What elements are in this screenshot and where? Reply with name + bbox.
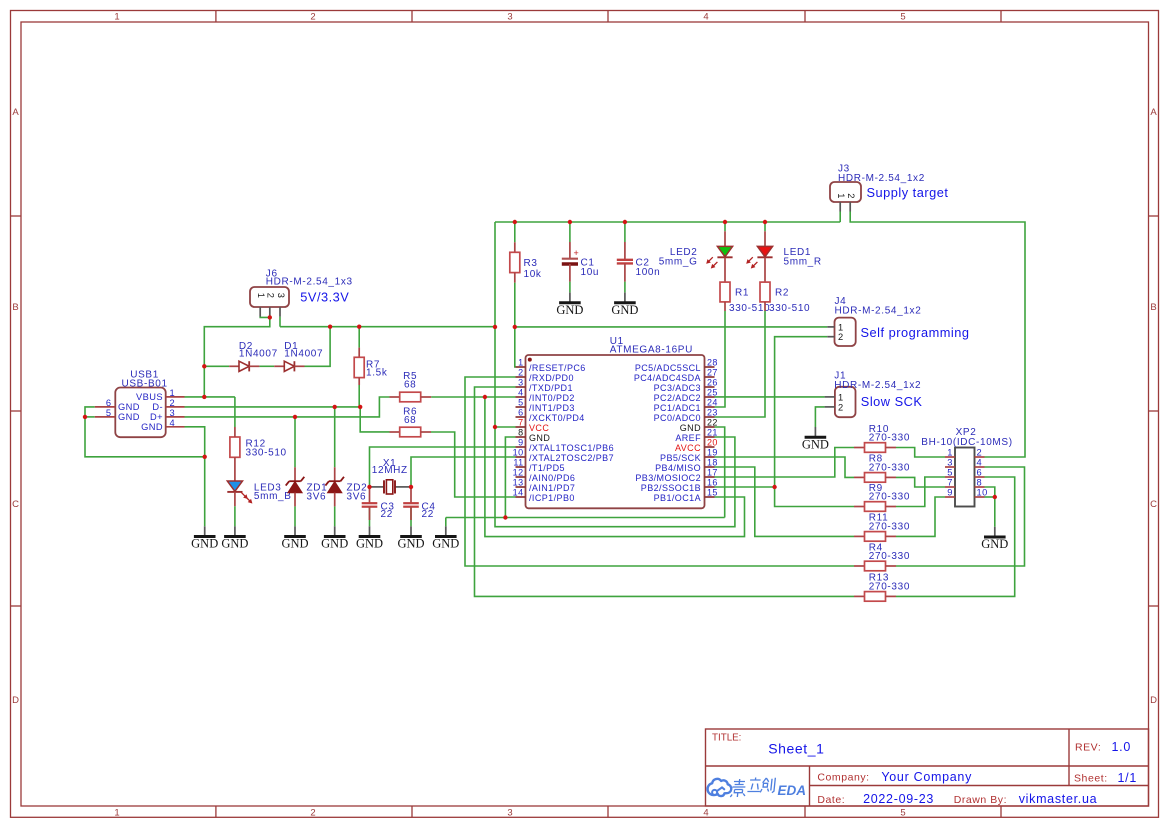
svg-text:6: 6	[977, 468, 983, 478]
svg-text:1: 1	[947, 448, 953, 458]
svg-text:2: 2	[838, 332, 844, 342]
svg-text:R3: R3	[524, 258, 538, 269]
node junction J6 pins 1-2	[268, 315, 272, 319]
wire J4 pin2 down to R9	[775, 337, 854, 507]
ground under ZD1	[281, 526, 308, 550]
svg-text:1: 1	[838, 392, 844, 402]
svg-text:3: 3	[170, 408, 176, 418]
node junction D1 to VCC rail	[328, 325, 332, 329]
svg-text:GND: GND	[191, 537, 218, 551]
wire VCC top rail	[495, 221, 840, 223]
svg-text:11: 11	[513, 458, 523, 468]
svg-text:PC0/ADC0: PC0/ADC0	[654, 413, 701, 423]
svg-text:22: 22	[381, 509, 393, 520]
ground under C4	[397, 526, 424, 550]
svg-text:10: 10	[977, 488, 988, 498]
svg-text:/XTAL2TOSC2/PB7: /XTAL2TOSC2/PB7	[529, 453, 614, 463]
svg-text:PC2/ADC2: PC2/ADC2	[654, 393, 701, 403]
resistor R8 270-330	[854, 454, 910, 483]
svg-text:2: 2	[310, 808, 315, 819]
svg-text:1: 1	[518, 358, 523, 368]
IC U1 ATMEGA8-16PU	[513, 336, 718, 508]
svg-text:Company:: Company:	[817, 772, 869, 784]
svg-text:R1: R1	[735, 287, 749, 298]
wire LED3 cathode to ground	[234, 506, 236, 526]
svg-text:7: 7	[947, 478, 953, 488]
wire VBUS up to J6 pins 1-2	[204, 317, 269, 397]
wire USB GND pin6 loop	[85, 407, 205, 457]
svg-text:AREF: AREF	[675, 433, 701, 443]
wire U1 pin9 XTAL1 to crystal	[370, 447, 516, 487]
svg-text:3: 3	[507, 808, 512, 819]
svg-text:PC1/ADC1: PC1/ADC1	[654, 403, 701, 413]
svg-text:270-330: 270-330	[869, 551, 910, 562]
svg-text:270-330: 270-330	[869, 492, 910, 503]
resistor R10 270-330	[854, 424, 910, 453]
title block	[706, 729, 1149, 806]
svg-text:1/1: 1/1	[1118, 771, 1137, 785]
wire GND bus to ground symbol	[445, 518, 447, 527]
wire U1 pin10 XTAL2 to crystal	[411, 457, 516, 487]
svg-text:/RESET/PC6: /RESET/PC6	[529, 363, 586, 373]
svg-text:TITLE:: TITLE:	[712, 733, 741, 744]
svg-text:GND: GND	[680, 423, 701, 433]
svg-text:8: 8	[518, 428, 523, 438]
svg-text:GND: GND	[118, 402, 140, 412]
svg-text:R2: R2	[775, 287, 789, 298]
svg-text:330-510: 330-510	[729, 303, 770, 314]
wire C4 to ground	[410, 507, 412, 527]
svg-text:Your Company: Your Company	[881, 770, 972, 784]
svg-text:GND: GND	[356, 537, 383, 551]
wire C1 to ground	[569, 282, 571, 293]
svg-text:1: 1	[838, 322, 844, 332]
ground under J1	[802, 427, 829, 451]
svg-text:B: B	[12, 302, 18, 313]
svg-text:D+: D+	[150, 412, 163, 422]
svg-text:A: A	[12, 107, 19, 118]
svg-text:4: 4	[518, 388, 523, 398]
wire R5 to U1 pin4 INT0	[431, 396, 515, 398]
wire R2 to U1 pin23	[715, 311, 766, 417]
svg-text:HDR-M-2.54_1x2: HDR-M-2.54_1x2	[838, 173, 925, 184]
svg-text:8: 8	[977, 478, 983, 488]
connector J1 HDR-M-2.54_1x2	[825, 370, 922, 417]
svg-text:17: 17	[707, 468, 718, 478]
node junction USB GND pins	[83, 415, 87, 419]
svg-text:VBUS: VBUS	[136, 392, 163, 402]
svg-text:/RXD/PD0: /RXD/PD0	[529, 373, 574, 383]
resistor R11 270-330	[854, 513, 910, 541]
svg-text:330-510: 330-510	[769, 303, 810, 314]
svg-text:10u: 10u	[581, 267, 600, 278]
wire D- horizontal	[185, 406, 361, 408]
wire R10 to XP2 pin1	[896, 448, 945, 458]
svg-text:HDR-M-2.54_1x2: HDR-M-2.54_1x2	[835, 306, 922, 317]
resistor R1 330-510	[720, 282, 770, 314]
svg-text:PC4/ADC4SDA: PC4/ADC4SDA	[634, 373, 701, 383]
svg-text:/TXD/PD1: /TXD/PD1	[529, 383, 573, 393]
wire ZD2 anode to ground	[334, 506, 336, 526]
svg-text:1: 1	[256, 293, 266, 299]
node junction R7 top	[357, 325, 361, 329]
svg-text:3V6: 3V6	[347, 492, 367, 503]
svg-text:2: 2	[518, 368, 523, 378]
svg-text:GND: GND	[281, 537, 308, 551]
capacitor C1 10u polarized	[562, 242, 599, 282]
wire XP2 ground net down	[994, 497, 996, 527]
node junction USB ground	[203, 455, 207, 459]
node junction VCC rail drop	[493, 325, 497, 329]
wire J6 pin3 down	[279, 317, 281, 327]
ground under C2	[611, 293, 638, 317]
svg-text:Date:: Date:	[817, 794, 845, 806]
svg-text:GND: GND	[321, 537, 348, 551]
resistor R12 top pin stub	[234, 427, 236, 437]
svg-text:13: 13	[513, 478, 524, 488]
svg-text:/AIN0/PD6: /AIN0/PD6	[529, 473, 575, 483]
node junction C1 top	[568, 220, 572, 224]
svg-text:3: 3	[507, 12, 512, 23]
svg-text:vikmaster.ua: vikmaster.ua	[1019, 792, 1098, 806]
wire VCC rail to LED2	[724, 222, 726, 231]
logo JLC EasyEDA cloud icon	[708, 779, 732, 796]
svg-text:21: 21	[707, 428, 718, 438]
zener diode ZD2 3V6	[325, 467, 344, 506]
wire U1 pin25 PC2 to J1 pin1	[715, 396, 825, 398]
svg-text:5: 5	[900, 808, 905, 819]
svg-text:4: 4	[170, 418, 176, 428]
resistor R12 330-510	[230, 437, 287, 459]
capacitor C3 22	[362, 487, 395, 520]
svg-text:BH-10(IDC-10MS): BH-10(IDC-10MS)	[921, 437, 1012, 448]
svg-text:14: 14	[513, 488, 524, 498]
svg-text:HDR-M-2.54_1x3: HDR-M-2.54_1x3	[266, 276, 353, 287]
svg-text:GND: GND	[397, 537, 424, 551]
wire R4 to XP2 pin4	[896, 467, 1025, 566]
wire VCC vertical and AREF loop	[495, 222, 735, 527]
svg-text:26: 26	[707, 378, 718, 388]
svg-text:10: 10	[513, 448, 524, 458]
crystal X1 12MHZ	[370, 458, 412, 494]
resistor R2 330-510	[760, 282, 810, 314]
svg-text:12: 12	[513, 468, 524, 478]
wire U1 pin22 GND down	[715, 427, 725, 518]
logo JLC EasyEDA text	[730, 778, 806, 799]
svg-text:68: 68	[404, 415, 416, 426]
wire U1 pin19 SCK to R8	[715, 457, 855, 477]
wire D- down to R6	[360, 407, 389, 432]
svg-text:6: 6	[106, 398, 112, 408]
svg-text:15: 15	[707, 488, 718, 498]
wire VCC rail to C1	[569, 222, 571, 242]
svg-text:Slow SCK: Slow SCK	[861, 394, 923, 409]
svg-text:GND: GND	[141, 422, 163, 432]
svg-text:Sheet_1: Sheet_1	[768, 741, 824, 757]
svg-text:5: 5	[947, 468, 953, 478]
svg-text:/ICP1/PB0: /ICP1/PB0	[529, 493, 575, 503]
resistor R6 68	[390, 407, 432, 437]
svg-text:GND: GND	[981, 537, 1008, 551]
svg-text:C: C	[1150, 499, 1157, 510]
node junction VBUS	[202, 395, 206, 399]
wire D- to ZD2	[334, 407, 336, 467]
svg-text:5mm_B: 5mm_B	[254, 491, 292, 502]
wire VBUS horizontal	[185, 396, 235, 398]
wire U1 pin8 GND down	[505, 437, 515, 518]
svg-text:/INT1/PD3: /INT1/PD3	[529, 403, 575, 413]
wire J6 pin1 join	[260, 316, 270, 317]
svg-text:EDA: EDA	[778, 783, 807, 798]
LED LED1 5mm_R red	[747, 231, 773, 282]
wire R13 to XP2 pin6	[896, 477, 1015, 596]
svg-text:1N4007: 1N4007	[239, 349, 278, 360]
node junction D+ branch	[483, 395, 487, 399]
svg-text:18: 18	[707, 458, 718, 468]
svg-text:VCC: VCC	[529, 423, 549, 433]
wire VCC rail to C2	[624, 222, 626, 242]
svg-text:D: D	[1150, 695, 1157, 706]
node junction C2 top	[623, 220, 627, 224]
svg-text:2: 2	[310, 12, 315, 23]
svg-text:9: 9	[947, 488, 953, 498]
wire R7 bottom to D- line	[358, 385, 360, 407]
svg-text:1.0: 1.0	[1112, 740, 1131, 754]
svg-text:4: 4	[977, 458, 983, 468]
svg-text:Sheet:: Sheet:	[1074, 773, 1108, 785]
connector XP2 BH-10(IDC-10MS)	[921, 427, 1012, 507]
svg-text:2: 2	[838, 402, 844, 412]
svg-text:Drawn By:: Drawn By:	[954, 794, 1007, 806]
svg-text:PB2/SSOC1B: PB2/SSOC1B	[641, 483, 701, 493]
svg-text:19: 19	[707, 448, 718, 458]
svg-text:23: 23	[707, 408, 718, 418]
node junction LED1 top	[763, 220, 767, 224]
svg-text:270-330: 270-330	[869, 463, 910, 474]
svg-text:USB-B01: USB-B01	[121, 378, 167, 389]
svg-text:4: 4	[703, 12, 708, 23]
wire XP2 pin8 to ground net	[985, 487, 995, 497]
node junction VBUS-D2	[202, 364, 206, 368]
svg-text:5: 5	[900, 12, 905, 23]
wire VCC rail to R7 top	[358, 327, 360, 348]
svg-text:GND: GND	[432, 537, 459, 551]
ground under ZD2	[321, 526, 348, 550]
svg-text:/XTAL1TOSC1/PB6: /XTAL1TOSC1/PB6	[529, 443, 614, 453]
svg-text:GND: GND	[802, 437, 829, 451]
svg-text:270-330: 270-330	[869, 433, 910, 444]
svg-text:GND: GND	[556, 303, 583, 317]
svg-text:20: 20	[707, 438, 718, 448]
resistor R7 1.5k	[354, 348, 388, 385]
wire D1 cathode up to VCC rail	[305, 327, 331, 367]
wire D2 cathode to D1 anode	[259, 365, 274, 367]
wire VCC rail to LED1	[764, 222, 766, 231]
svg-text:7: 7	[518, 418, 523, 428]
node junction VCC pin7	[493, 425, 497, 429]
node junction LED2 top	[723, 220, 727, 224]
capacitor C2 100n	[617, 242, 661, 282]
svg-text:1: 1	[170, 388, 176, 398]
wire C3 to ground	[369, 507, 371, 527]
svg-text:2: 2	[266, 293, 276, 299]
svg-text:4: 4	[703, 808, 708, 819]
svg-text:16: 16	[707, 478, 718, 488]
wire R8 to XP2 pin7	[896, 477, 945, 487]
svg-text:270-330: 270-330	[869, 522, 910, 533]
svg-text:1: 1	[114, 808, 119, 819]
svg-text:2: 2	[846, 193, 856, 199]
svg-text:B: B	[1150, 302, 1156, 313]
svg-text:24: 24	[707, 398, 718, 408]
svg-text:5mm_R: 5mm_R	[784, 257, 822, 268]
svg-text:5: 5	[106, 408, 112, 418]
svg-text:PB5/SCK: PB5/SCK	[660, 453, 701, 463]
svg-text:GND: GND	[611, 303, 638, 317]
node junction GND bus	[503, 515, 507, 519]
svg-text:3: 3	[947, 458, 953, 468]
svg-text:68: 68	[404, 380, 416, 391]
ground for U1 GND pins	[432, 526, 459, 550]
connector J3 HDR-M-2.54_1x2	[830, 164, 925, 212]
svg-text:6: 6	[518, 408, 523, 418]
svg-text:REV:: REV:	[1075, 742, 1101, 754]
svg-text:PC5/ADC5SCL: PC5/ADC5SCL	[635, 363, 701, 373]
resistor R5 68	[390, 371, 432, 402]
ground under USB1	[191, 526, 218, 550]
node junction crystal right	[409, 485, 413, 489]
svg-text:/XCKT0/PD4: /XCKT0/PD4	[529, 413, 585, 423]
svg-text:22: 22	[422, 509, 434, 520]
svg-text:HDR-M-2.54_1x2: HDR-M-2.54_1x2	[834, 380, 921, 391]
node junction PB2 J4	[772, 485, 776, 489]
wire D+ to ZD1	[294, 417, 296, 467]
wire VCC to U1 pin7	[495, 426, 516, 428]
svg-text:25: 25	[707, 388, 718, 398]
connector J6 HDR-M-2.54_1x3	[250, 269, 353, 317]
connector USB1 USB-B01	[95, 370, 185, 438]
svg-text:3V6: 3V6	[307, 492, 327, 503]
svg-text:10k: 10k	[524, 269, 542, 280]
svg-text:+: +	[573, 248, 579, 258]
wire RESET rail to J4 pin1	[515, 326, 828, 328]
wire U1 pin17 MOSI to R10	[715, 448, 855, 478]
connector J4 HDR-M-2.54_1x2	[827, 296, 921, 346]
svg-text:3: 3	[518, 378, 523, 388]
svg-text:1N4007: 1N4007	[284, 349, 323, 360]
wire R9 to XP2 pin5	[896, 477, 945, 507]
ground under XP2	[981, 527, 1008, 551]
svg-text:100n: 100n	[636, 267, 661, 278]
capacitor C4 22	[403, 487, 435, 520]
wire USB GND pin5 stub join	[85, 416, 95, 418]
ground under C3	[356, 526, 383, 550]
svg-text:GND: GND	[529, 433, 550, 443]
wire U1 pin16 PB2 to junction	[715, 486, 775, 488]
wire J1 pin2 to ground	[815, 407, 824, 427]
wire R6 to U1 pin14 PB0	[431, 432, 516, 497]
wire GND bus below U1	[446, 517, 725, 519]
svg-text:28: 28	[707, 358, 718, 368]
svg-text:D-: D-	[152, 402, 163, 412]
wire VBUS to R12	[234, 397, 236, 427]
node junction D+ ZD1	[293, 415, 297, 419]
wire U1 pin18 MISO to R11	[715, 467, 855, 536]
svg-text:PB3/MOSIOC2: PB3/MOSIOC2	[635, 473, 701, 483]
wire ZD1 anode to ground	[294, 506, 296, 526]
resistor R13 270-330	[854, 573, 910, 601]
svg-text:2022-09-23: 2022-09-23	[863, 792, 934, 806]
svg-text:1: 1	[114, 12, 119, 23]
wire U1 pin3 TXD to R13	[475, 387, 855, 596]
LED LED2 5mm_G green	[707, 231, 733, 282]
wire R1 to U1 pin24	[715, 311, 726, 407]
wire R3 down to U1 pin1 RESET	[514, 283, 517, 367]
svg-text:27: 27	[707, 368, 718, 378]
wire J3 pin1 to VCC rail	[839, 212, 841, 223]
node junction crystal left	[367, 485, 371, 489]
wire VCC rail to R3	[514, 222, 516, 242]
svg-text:GND: GND	[221, 537, 248, 551]
wire J3 pin2 to XP2 pin2	[850, 212, 1025, 458]
svg-text:PB1/OC1A: PB1/OC1A	[654, 493, 701, 503]
resistor R9 270-330	[854, 483, 910, 512]
wire D+ horizontal to R5	[185, 397, 390, 417]
svg-text:1.5k: 1.5k	[366, 368, 388, 379]
svg-text:2: 2	[977, 448, 983, 458]
node junction XP2 ground	[993, 495, 997, 499]
svg-text:270-330: 270-330	[869, 582, 910, 593]
svg-text:5mm_G: 5mm_G	[659, 257, 698, 268]
svg-text:C: C	[12, 499, 19, 510]
wire VCC rail segment y=327	[280, 326, 495, 328]
ground under LED3	[221, 526, 248, 550]
svg-text:ATMEGA8-16PU: ATMEGA8-16PU	[610, 344, 693, 355]
svg-text:1: 1	[836, 193, 846, 199]
diode D2 1N4007	[229, 341, 278, 372]
svg-text:5V/3.3V: 5V/3.3V	[300, 290, 349, 305]
svg-text:/T1/PD5: /T1/PD5	[529, 463, 565, 473]
svg-text:PC3/ADC3: PC3/ADC3	[654, 383, 701, 393]
svg-text:2: 2	[170, 398, 176, 408]
svg-text:9: 9	[518, 438, 523, 448]
svg-text:22: 22	[707, 418, 718, 428]
resistor R4 270-330	[854, 542, 910, 571]
wire C2 to ground	[624, 282, 626, 293]
svg-text:3: 3	[276, 293, 286, 299]
svg-text:12MHZ: 12MHZ	[372, 465, 408, 476]
svg-text:5: 5	[518, 398, 523, 408]
wire U1 pin2 RXD to R4	[465, 377, 854, 566]
LED LED3 5mm_B blue	[227, 457, 291, 506]
wire USB pin4 to ground	[185, 427, 205, 527]
zener diode ZD1 3V6	[286, 467, 305, 506]
node junction RESET rail	[513, 325, 517, 329]
svg-text:GND: GND	[118, 412, 140, 422]
diode D1 1N4007	[274, 341, 323, 372]
svg-text:A: A	[1150, 107, 1157, 118]
node junction D- ZD2	[333, 405, 337, 409]
wire to D2 anode	[204, 365, 229, 367]
wire D+ branch to U1 pin15 PB1	[485, 397, 745, 537]
wire XP2 pin10 to ground net	[985, 496, 995, 498]
svg-text:Self programming: Self programming	[861, 325, 970, 340]
svg-text:PB4/MISO: PB4/MISO	[655, 463, 701, 473]
svg-text:D: D	[12, 695, 19, 706]
wire R11 to XP2 pin9	[896, 497, 945, 536]
svg-text:/INT0/PD2: /INT0/PD2	[529, 393, 575, 403]
svg-text:AVCC: AVCC	[675, 443, 701, 453]
